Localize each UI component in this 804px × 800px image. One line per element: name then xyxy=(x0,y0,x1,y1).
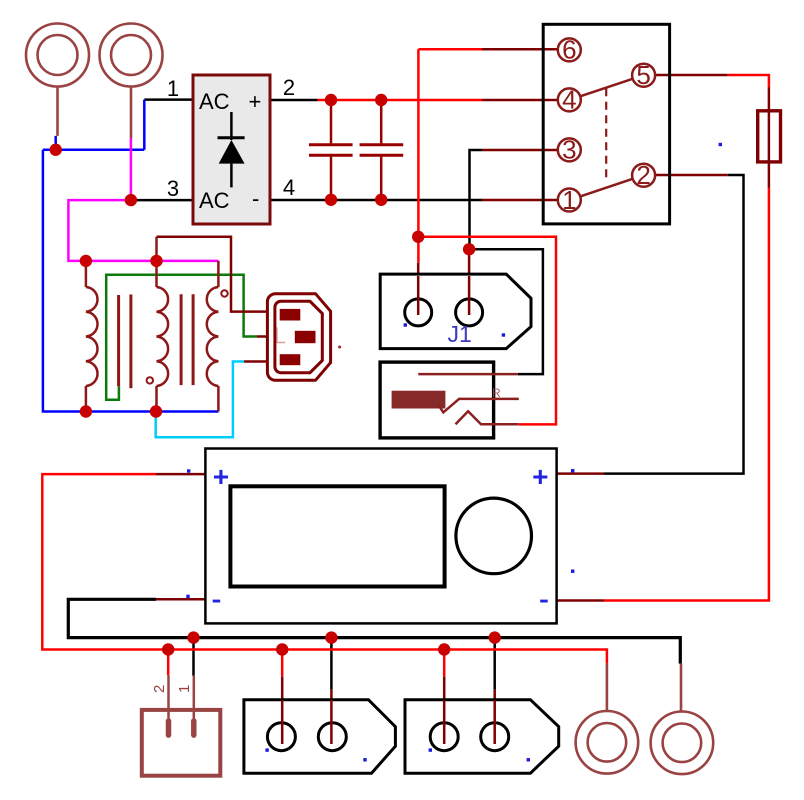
svg-text:2: 2 xyxy=(283,75,295,100)
svg-text:4: 4 xyxy=(562,85,576,115)
svg-text:-: - xyxy=(252,186,259,211)
svg-text:1: 1 xyxy=(176,685,193,693)
svg-text:+: + xyxy=(213,461,229,492)
svg-text:3: 3 xyxy=(167,176,179,201)
svg-text:+: + xyxy=(249,89,262,114)
svg-text:3: 3 xyxy=(562,135,576,165)
svg-text:4: 4 xyxy=(283,175,295,200)
svg-text:2: 2 xyxy=(151,685,168,693)
svg-text:+: + xyxy=(532,461,548,492)
svg-text:AC: AC xyxy=(199,89,230,114)
svg-text:2: 2 xyxy=(636,160,650,190)
svg-text:AC: AC xyxy=(199,188,230,213)
svg-text:1: 1 xyxy=(562,185,576,215)
svg-text:6: 6 xyxy=(562,35,576,65)
svg-text:R: R xyxy=(492,386,501,400)
svg-text:1: 1 xyxy=(167,76,179,101)
svg-text:J1: J1 xyxy=(448,321,472,347)
svg-text:5: 5 xyxy=(636,60,650,90)
